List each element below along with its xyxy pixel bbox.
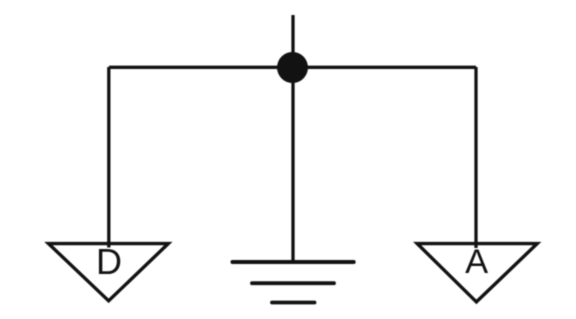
wire: left drop to D ground xyxy=(107,67,110,248)
wire: horizontal bus left to right xyxy=(109,66,476,69)
ground symbol: earth ground bar 3 xyxy=(272,301,315,305)
ground symbol: earth ground bar 1 xyxy=(233,260,354,264)
svg-text:A: A xyxy=(465,243,488,281)
wire: top feed into star point xyxy=(291,15,294,68)
node: star-point junction dot xyxy=(277,52,308,83)
ground symbol: digital ground triangle D xyxy=(49,244,169,301)
ground symbol: earth ground bar 2 xyxy=(252,281,334,285)
wire: center vertical down to earth ground xyxy=(291,68,294,263)
svg-text:D: D xyxy=(96,241,122,282)
wire: right drop to A ground xyxy=(474,67,477,248)
ground symbol: analog ground triangle A xyxy=(417,244,537,302)
